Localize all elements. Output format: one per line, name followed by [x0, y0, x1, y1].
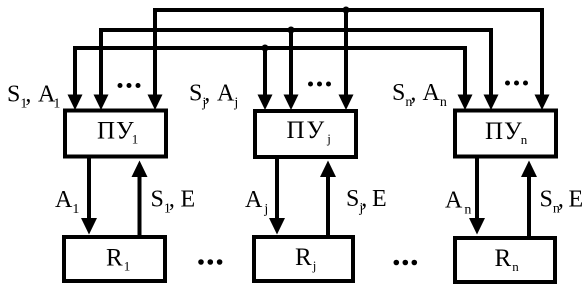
svg-text:ПУn: ПУn: [485, 118, 528, 147]
svg-text:S1,E: S1,E: [151, 187, 196, 217]
svg-text:ПУ1: ПУ1: [97, 118, 139, 147]
svg-text:Sj,E: Sj,E: [346, 186, 387, 216]
svg-text:ПУj: ПУj: [287, 117, 333, 146]
svg-text:Sn,E: Sn,E: [540, 187, 584, 217]
